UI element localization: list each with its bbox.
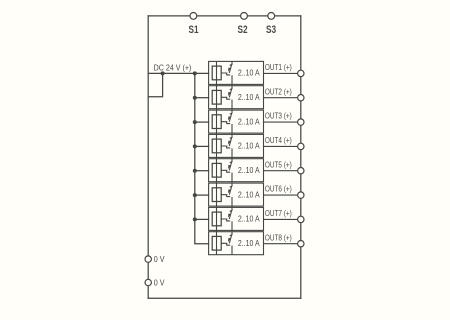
svg-text:OUT2 (+): OUT2 (+) — [265, 87, 292, 97]
svg-text:2..10 A: 2..10 A — [238, 68, 260, 78]
svg-text:S2: S2 — [238, 24, 249, 36]
wire: channel 4 output — [264, 145, 298, 147]
channel 3 electronic switch — [221, 113, 233, 124]
svg-text:2..10 A: 2..10 A — [238, 165, 260, 175]
terminal OUT3 (+) — [298, 119, 304, 125]
channel 6 fuse F6 — [212, 188, 221, 202]
wire: channel 8 output — [264, 243, 298, 245]
wire: left supply rail (0 V return) — [147, 16, 149, 298]
channel 1 electronic switch — [221, 64, 233, 75]
channel 6 electronic switch — [221, 186, 233, 197]
channel 1 fuse F1 — [212, 66, 221, 80]
svg-text:S1: S1 — [188, 24, 199, 36]
svg-text:OUT4 (+): OUT4 (+) — [265, 135, 292, 145]
wire: distribution bus — [195, 73, 209, 243]
channel 8 electronic switch — [221, 235, 233, 246]
wire: feeder loop to left rail — [148, 73, 162, 96]
terminal S3 — [268, 13, 275, 20]
wire: DC 24 V feeder — [148, 72, 208, 74]
wire: channel 6 output — [264, 194, 298, 196]
terminal OUT8 (+) — [298, 241, 304, 247]
svg-text:DC 24 V (+): DC 24 V (+) — [154, 63, 192, 73]
wire: switch column upper segment channel 1 — [231, 61, 233, 64]
channel 3 fuse F3 — [212, 115, 221, 129]
wire: channel 3 feed — [195, 121, 209, 123]
svg-text:2..10 A: 2..10 A — [238, 141, 260, 151]
terminal OUT5 (+) — [298, 168, 304, 174]
junction: channel 5 feed tap — [193, 169, 197, 173]
wire: switch column segment channel 4-5 — [231, 148, 233, 162]
channel 5 fuse F5 — [212, 163, 221, 177]
wire: switch column segment channel 1-2 — [231, 75, 233, 89]
terminal OUT4 (+) — [298, 143, 304, 149]
wire: switch column segment channel 7-8 — [231, 221, 233, 235]
junction: feeder loop node — [161, 71, 165, 75]
channel 7 fuse F7 — [212, 212, 221, 226]
wire: channel 7 output — [264, 218, 298, 220]
wire: channel 5 output — [264, 170, 298, 172]
breaker channel 6 box — [209, 183, 264, 206]
channel 4 fuse F4 — [212, 139, 221, 153]
svg-text:OUT7 (+): OUT7 (+) — [265, 208, 292, 218]
channel 8 fuse F8 — [212, 236, 221, 250]
svg-text:OUT5 (+): OUT5 (+) — [265, 160, 292, 170]
svg-text:0 V: 0 V — [154, 278, 165, 288]
breaker channel 3 box — [209, 110, 264, 133]
svg-text:2..10 A: 2..10 A — [238, 117, 260, 127]
svg-text:OUT6 (+): OUT6 (+) — [265, 184, 292, 194]
wire: bottom return rail — [148, 297, 301, 299]
breaker channel 8 box — [209, 232, 264, 255]
junction: channel 4 feed tap — [193, 144, 197, 148]
svg-text:2..10 A: 2..10 A — [238, 214, 260, 224]
svg-text:2..10 A: 2..10 A — [238, 92, 260, 102]
breaker channel 1 box — [209, 61, 264, 84]
wire: channel 3 output — [264, 121, 298, 123]
breaker channel 2 box — [209, 86, 264, 109]
wire: right output rail — [300, 16, 302, 298]
terminal OUT2 (+) — [298, 95, 304, 101]
breaker channel 4 box — [209, 134, 264, 157]
svg-text:OUT1 (+): OUT1 (+) — [265, 62, 292, 72]
wire: channel 6 feed — [195, 194, 209, 196]
junction: bus tap node — [193, 71, 197, 75]
channel 2 electronic switch — [221, 89, 233, 100]
terminal 0 V (upper) — [145, 256, 151, 262]
channel 7 electronic switch — [221, 210, 233, 221]
terminal OUT1 (+) — [298, 70, 304, 76]
junction: channel 3 feed tap — [193, 120, 197, 124]
svg-text:OUT8 (+): OUT8 (+) — [265, 233, 292, 243]
wire: channel 4 feed — [195, 145, 209, 147]
channel 2 fuse F2 — [212, 90, 221, 104]
terminal OUT7 (+) — [298, 216, 304, 222]
terminal S1 — [190, 13, 197, 20]
terminal 0 V (lower) — [145, 279, 151, 285]
wire: channel 5 feed — [195, 170, 209, 172]
wire: top supply rail S1-S3 — [148, 15, 301, 17]
breaker channel 7 box — [209, 207, 264, 230]
channel 5 electronic switch — [221, 162, 233, 173]
wire: switch column segment channel 2-3 — [231, 100, 233, 114]
svg-text:S3: S3 — [266, 24, 277, 36]
wire: channel 2 feed — [195, 97, 209, 99]
wire: switch column segment channel 3-4 — [231, 124, 233, 138]
wire: channel 2 output — [264, 97, 298, 99]
wire: switch column lower segment channel 8 — [231, 246, 233, 255]
svg-text:2..10 A: 2..10 A — [238, 238, 260, 248]
wire: fuse column line through all channels — [216, 61, 218, 254]
wire: switch column segment channel 5-6 — [231, 173, 233, 187]
terminal OUT6 (+) — [298, 192, 304, 198]
channel 4 electronic switch — [221, 137, 233, 148]
svg-text:OUT3 (+): OUT3 (+) — [265, 111, 292, 121]
junction: channel 6 feed tap — [193, 193, 197, 197]
wire: channel 1 output — [264, 72, 298, 74]
wire: switch column segment channel 6-7 — [231, 197, 233, 211]
terminal S2 — [241, 13, 248, 20]
breaker channel 5 box — [209, 159, 264, 182]
junction: channel 7 feed tap — [193, 217, 197, 221]
svg-text:2..10 A: 2..10 A — [238, 190, 260, 200]
junction: channel 2 feed tap — [193, 96, 197, 100]
wire: channel 7 feed — [195, 218, 209, 220]
svg-text:0 V: 0 V — [154, 254, 165, 264]
